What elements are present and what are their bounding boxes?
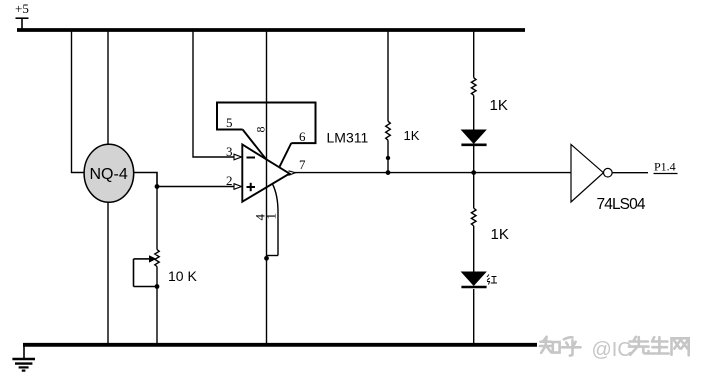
svg-text:8: 8	[253, 127, 267, 133]
junction dot node C	[471, 170, 476, 175]
sensor NQ-4	[84, 144, 134, 202]
wire rail to resistor R1	[387, 31, 389, 121]
ground	[12, 346, 35, 371]
node dot on R1 wire	[386, 156, 390, 160]
junction dot pot bottom	[155, 284, 160, 289]
wire NQ-4 bottom to ground rail	[107, 202, 109, 344]
junction dot node A	[155, 184, 160, 189]
junction dot node B	[386, 170, 391, 175]
wire R1 to node B	[387, 140, 389, 172]
wire pin 1 curve	[273, 184, 279, 256]
ground rail	[23, 343, 537, 347]
svg-text:1: 1	[264, 213, 279, 220]
wire junction down to potentiometer	[156, 187, 158, 250]
wire pin 8 through to pin 4 junction	[266, 160, 268, 257]
resistor R2 1K	[471, 78, 476, 96]
wire op-amp output to node B	[295, 172, 388, 174]
label red LED	[487, 275, 497, 285]
wire pot to ground rail	[156, 267, 158, 345]
svg-text:7: 7	[299, 157, 306, 172]
resistor R3 1K	[471, 208, 476, 226]
svg-text:LM311: LM311	[327, 130, 369, 146]
inverter U2	[571, 144, 612, 202]
svg-text:2: 2	[226, 173, 233, 188]
junction dot pin4	[264, 256, 269, 261]
svg-text:1K: 1K	[490, 97, 508, 114]
svg-text:3: 3	[226, 144, 233, 159]
svg-text:NQ-4: NQ-4	[90, 166, 128, 183]
wire node B to node C	[388, 172, 474, 174]
net label P1.4	[654, 160, 678, 174]
pin 5/6 bracket net	[217, 103, 316, 167]
wire pin4 junction to ground rail	[266, 257, 268, 344]
op-amp U1	[234, 145, 296, 202]
+5 power rail	[17, 28, 525, 32]
svg-text:10 K: 10 K	[168, 268, 197, 284]
watermark	[540, 337, 689, 361]
svg-text:P1.4: P1.4	[654, 160, 676, 174]
wire R2 to diode D1	[473, 95, 475, 130]
wire rail to op-amp pin 8	[266, 31, 268, 160]
wire rail to NQ-4 top	[107, 31, 109, 145]
wire inverter output	[612, 172, 648, 174]
svg-text:5: 5	[226, 115, 233, 130]
svg-text:1K: 1K	[404, 128, 420, 143]
wire junction to op-amp pin 2	[157, 186, 234, 188]
wire NQ-4 right to junction	[134, 173, 157, 187]
wire LED to ground rail	[473, 289, 475, 344]
svg-text:1K: 1K	[491, 226, 509, 243]
resistor R1 1K	[386, 121, 391, 140]
wire R3 to LED D2	[473, 226, 475, 272]
+5 power symbol	[15, 1, 29, 30]
potentiometer 10K	[134, 250, 160, 287]
wire node C to resistor R3	[473, 173, 475, 209]
diode D1	[461, 130, 486, 145]
wire node C to inverter input	[474, 172, 571, 174]
wire pin1 to pin4 bottom tie	[267, 255, 279, 257]
svg-text:@IC: @IC	[592, 339, 632, 361]
wire rail to op-amp pin 3	[193, 31, 234, 157]
svg-text:6: 6	[299, 129, 306, 144]
svg-text:+5: +5	[15, 1, 29, 16]
wire rail to resistor R2	[473, 31, 475, 78]
wire D1 to node C	[473, 146, 475, 173]
svg-text:74LS04: 74LS04	[597, 196, 646, 213]
LED D2 red	[461, 272, 486, 287]
wire rail to NQ-4 left	[72, 31, 85, 173]
